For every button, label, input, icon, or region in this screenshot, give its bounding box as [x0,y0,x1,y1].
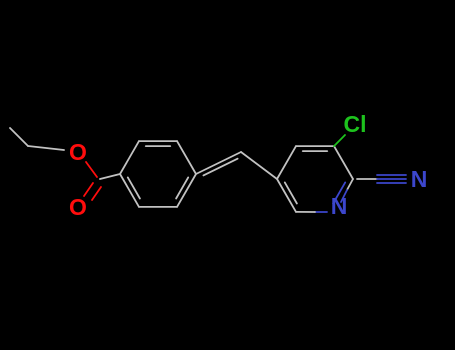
svg-text:Cl: Cl [344,111,367,137]
bond carbonyl C to benzene ring [100,174,120,179]
svg-text:N: N [411,166,428,192]
svg-text:N: N [331,193,348,219]
pyridine ring [277,146,296,179]
pyridine inner double bond C3=C4 [303,150,327,152]
bond C2 to nitrile C [357,178,377,180]
bond O to carbonyl C [86,162,97,177]
svg-text:O: O [69,194,87,220]
carbonyl C=O double bond [84,183,93,196]
ethyl group CH3-CH2 [10,128,28,146]
pyridine edge N1-C6 [315,211,327,213]
wire vinyl to pyridine [241,152,277,179]
benzene ring [120,141,139,174]
nitrile triple bond [377,174,406,176]
benzene inner double bonds [146,145,170,147]
svg-text:O: O [69,139,87,165]
pyridine edge C2=N1 with inner double [347,179,353,190]
bond C3 to Cl [334,135,345,146]
vinyl C=C double bond [196,152,241,174]
pyridine inner double bond C5=C6 [285,182,297,203]
